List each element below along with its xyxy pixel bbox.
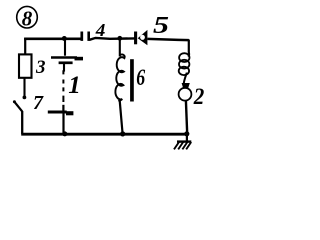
capacitor C1 top plate right blob (75, 57, 84, 61)
capacitor C1 top plate (51, 56, 77, 59)
diode D5 cathode bar (134, 32, 137, 45)
dashed link of variable capacitor 1 (62, 70, 64, 102)
wire top horizontal right segment (148, 39, 189, 40)
svg-text:6: 6 (136, 65, 145, 90)
diode D5 triangle white notch (140, 35, 145, 40)
wire down to C1 (64, 39, 66, 56)
coil L6 winding (115, 55, 124, 101)
wire bottom horizontal bus (21, 133, 187, 136)
wire down to coil L6 (119, 39, 121, 57)
earphone B2 circle (179, 88, 192, 101)
resistor R3 (rectangle) (19, 54, 32, 77)
node junction bottom of coil L6 (120, 131, 125, 136)
node junction bottom of capacitor branch (62, 131, 67, 136)
trimmer plate right nub (66, 111, 73, 115)
svg-text:2: 2 (193, 84, 205, 110)
ground stub (186, 134, 188, 141)
ground bar (177, 140, 191, 142)
switch K7 blade (14, 102, 22, 112)
antenna coil above earphone ring 1 (179, 53, 189, 62)
node junction top of coil L6 (117, 36, 122, 41)
wire from resistor to switch contact (23, 78, 25, 97)
svg-text:1: 1 (68, 72, 81, 99)
wire top horizontal middle segment (90, 38, 135, 40)
capacitor C4 left plate (80, 32, 83, 41)
diode D5 triangle (138, 30, 148, 45)
svg-text:7: 7 (33, 92, 44, 114)
svg-text:5: 5 (153, 13, 169, 39)
wire top horizontal left segment (24, 37, 81, 40)
svg-text:3: 3 (35, 57, 46, 78)
wire earphone to ground (186, 100, 187, 133)
trimmer plate bar of capacitor 1 (48, 110, 67, 113)
capacitor C1 bottom plate (59, 61, 73, 64)
earphone B2 top terminal blob (182, 83, 190, 89)
coil L6 core bar (130, 59, 134, 101)
antenna coil ring 3 (179, 67, 189, 75)
wire from trimmer to bottom bus (62, 114, 64, 134)
node junction at ground (184, 131, 189, 136)
antenna coil ring 2 (179, 60, 189, 69)
wire stub above trimmer plate (62, 105, 64, 111)
capacitor C4 right plate (87, 32, 90, 41)
wire top-left corner vertical (24, 38, 26, 54)
wire stub below C1 (63, 63, 65, 72)
figure number badge circle (17, 6, 38, 28)
wire coil to earphone (184, 73, 187, 84)
wire lower-left vertical (21, 111, 23, 134)
wire coil L6 to bottom bus (120, 101, 123, 134)
ground hatch strokes (174, 142, 191, 149)
svg-text:8: 8 (22, 6, 33, 30)
switch K7 fixed contact dot (23, 96, 27, 100)
switch K7 blade tip (13, 100, 16, 103)
wire right corner vertical (187, 40, 190, 57)
node junction top of capacitor C1 (62, 36, 67, 41)
